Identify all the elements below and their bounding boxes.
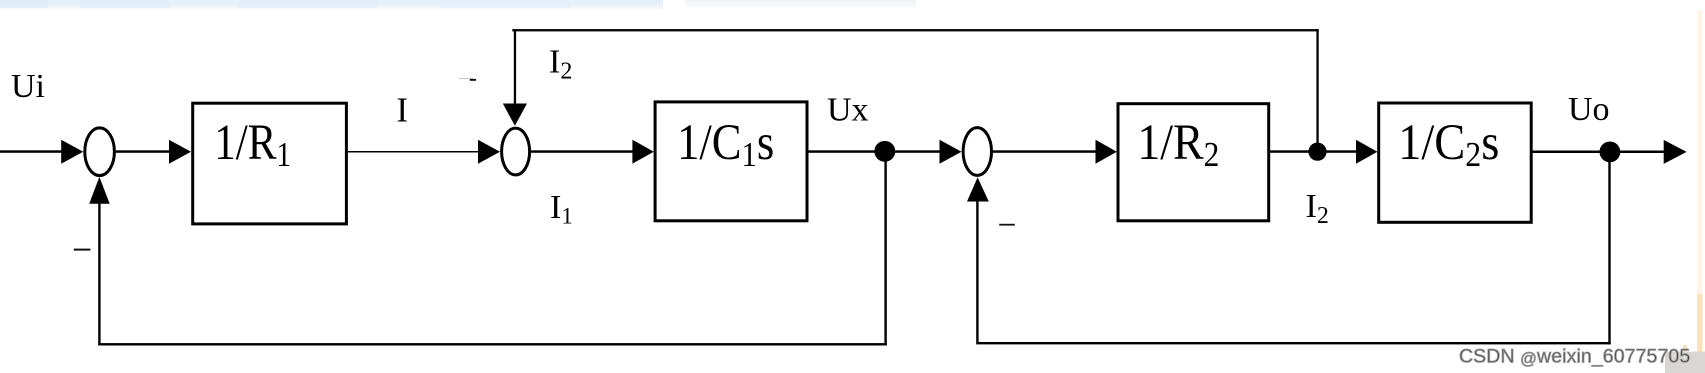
wire S3 to block 1/R2 — [992, 150, 1097, 153]
arrowhead into summing junction S2 — [478, 140, 500, 164]
summing junction S1 — [85, 128, 115, 176]
arrowhead up into S3 — [967, 177, 989, 201]
highlight strip dark patch A — [0, 0, 48, 8]
wire top feedback vertical left into S2 — [514, 29, 516, 105]
summing junction S2 — [502, 128, 530, 175]
highlight strip gray band — [685, 0, 916, 9]
arrowhead output — [1664, 140, 1687, 164]
highlight strip dark patch C — [237, 0, 377, 8]
highlight strip dark patch B — [80, 0, 170, 8]
summing junction S3 — [963, 128, 991, 176]
label 1/R1 — [214, 115, 291, 175]
arrowhead up into S1 — [89, 177, 110, 204]
arrowhead down into S2 — [503, 104, 527, 126]
peach strip right edge lower — [1697, 294, 1703, 355]
svg-text:1/C1s: 1/C1s — [677, 114, 774, 174]
wire feedback left vertical from Ux — [884, 152, 886, 346]
wire input Ui — [0, 150, 62, 153]
faint minus mark near S2 — [459, 78, 473, 79]
svg-text:CSDN @weixin_60775705: CSDN @weixin_60775705 — [1459, 346, 1690, 369]
wire block 1/C2s to output — [1531, 151, 1664, 154]
svg-text:Uo: Uo — [1568, 91, 1610, 128]
highlight strip blue band — [0, 0, 663, 10]
wire feedback right vertical from Uo — [1608, 152, 1610, 345]
wire block 1/R2 to block 1/C2s — [1270, 150, 1357, 153]
wire feedback right vertical into S3 — [976, 201, 978, 342]
wire block 1/R1 to S2 (current I) — [348, 151, 478, 153]
arrowhead into block 1/C1s — [632, 140, 653, 164]
label 1/C2s — [1398, 114, 1499, 174]
highlight strip dark patch D — [440, 0, 570, 8]
arrowhead into block 1/C2s — [1356, 140, 1377, 164]
wire top feedback vertical right — [1316, 29, 1318, 151]
wire top feedback horizontal — [512, 29, 1318, 31]
wire S1 to block 1/R1 — [116, 150, 170, 153]
arrowhead into summing junction S3 — [940, 140, 962, 164]
gray block bottom right — [1665, 352, 1705, 373]
svg-text:1/C2s: 1/C2s — [1398, 114, 1499, 174]
svg-text:I: I — [396, 91, 408, 130]
wire feedback right horizontal — [976, 342, 1610, 344]
block 1/R1 — [193, 103, 347, 224]
block 1/C1s — [655, 102, 807, 221]
node I2 — [1308, 143, 1326, 161]
node Ux — [874, 141, 895, 162]
node Uo — [1600, 142, 1621, 163]
arrowhead into summing junction S1 — [61, 140, 83, 164]
svg-text:Ui: Ui — [11, 68, 45, 105]
arrowhead into block 1/R2 — [1096, 140, 1117, 164]
wire block 1/C1s to S3 — [809, 150, 941, 153]
peach mark bottom right — [1683, 345, 1687, 353]
label 1/C1s — [677, 114, 774, 174]
svg-text:Ux: Ux — [827, 92, 869, 129]
label 1/R2 — [1137, 115, 1219, 175]
arrowhead into block 1/R1 — [169, 140, 191, 164]
block 1/C2s — [1379, 103, 1532, 222]
block 1/R2 — [1118, 104, 1269, 221]
wire feedback left horizontal — [98, 343, 887, 345]
wire S2 to block 1/C1s — [531, 150, 633, 153]
peach strip right edge — [1697, 10, 1703, 294]
minus dash near S2 — [470, 79, 476, 81]
wire feedback left vertical into S1 — [98, 202, 100, 345]
minus dash near S1 — [74, 249, 91, 251]
minus dash near S3 — [999, 224, 1015, 226]
